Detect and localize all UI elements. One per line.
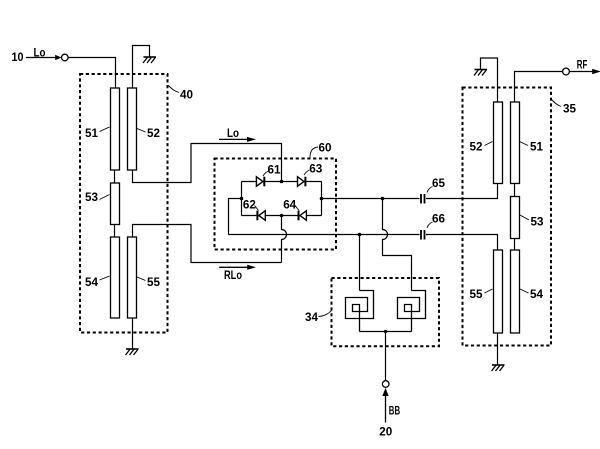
label right 55 [470,287,493,301]
capacitor 65 [421,194,425,204]
transmission line 52 [128,88,137,170]
label right 52 [470,140,493,154]
wire 51-53 link [114,170,116,183]
dashed box 35 [463,88,552,346]
ground (top of right 52) [474,58,498,102]
diode 63 [298,177,306,187]
diode 64 [299,211,307,221]
label 65 [427,176,445,193]
label 61 [263,163,281,177]
wire ring right rail [321,182,323,216]
BB lead arrow [382,388,388,423]
wire drop to right spiral with crossover hop [383,199,412,291]
node ring right [320,197,324,201]
transmission line right 51 [511,102,520,184]
wire ring bottom rail [242,215,322,217]
label right 53 [520,215,544,229]
svg-text:54: 54 [530,287,543,301]
wire RF (51 top to terminal) [515,72,563,103]
svg-text:51: 51 [85,126,98,140]
label 34 [305,310,332,324]
wire drop to left spiral [359,235,361,291]
svg-text:55: 55 [147,275,160,289]
wire ring top rail [242,181,322,183]
svg-text:64: 64 [283,198,296,212]
wire terminal to line 51 [68,58,116,89]
capacitor 66 [421,230,425,240]
svg-text:63: 63 [309,162,322,176]
wire cap65 line (ring right to box 35) [322,198,420,200]
svg-text:61: 61 [268,163,281,177]
svg-text:34: 34 [305,310,318,324]
wire 53-54 link right [514,239,516,251]
label 52 [137,126,160,140]
svg-text:60: 60 [319,141,332,155]
diode 62 [257,211,265,221]
input lead arrow [26,55,62,60]
ground (bottom of right 55) [492,333,505,371]
label 62 [243,198,259,212]
svg-text:53: 53 [85,190,98,204]
terminal BB (open circle) [382,381,389,388]
transmission line right 54 [511,250,520,333]
Lo direction arrow [219,126,256,142]
dashed box 40 [80,74,168,333]
svg-text:52: 52 [470,140,483,154]
label right 51 [520,140,544,154]
wire 53-54 link [114,225,116,238]
ground (top of 52) [133,46,157,89]
svg-text:51: 51 [530,140,543,154]
wire ring bottom drop with crossover hop [282,216,287,263]
transmission line 51 [111,88,120,170]
inductor spiral left [346,291,374,332]
wire spiral bottoms join [360,331,412,333]
svg-text:52: 52 [147,126,160,140]
svg-text:20: 20 [379,425,392,439]
svg-text:35: 35 [563,102,576,116]
label 60 [310,141,332,158]
node BB junction [384,330,387,333]
label 66 [427,212,445,229]
diode ring rails [242,182,322,216]
label right 54 [520,287,543,301]
label 64 [283,198,299,212]
node ring bottom [280,214,284,218]
wire cap66 line (ring left to box 35) [229,234,420,236]
svg-text:RLo: RLo [224,268,242,282]
dashed box 60 [215,159,337,250]
transmission line 53 [111,183,120,225]
label 54 [85,275,110,289]
dashed box 34 [332,278,440,346]
transmission line right 53 [511,197,520,239]
svg-text:RF: RF [577,57,588,71]
wire Lo path (52 bottom to ring top) [133,144,282,183]
label 53 [85,190,110,204]
transmission line 54 [111,237,120,318]
svg-text:55: 55 [470,287,483,301]
label 40 [169,86,194,102]
inductor spiral right [398,291,426,332]
ground (bottom of 55) [126,318,139,355]
svg-text:65: 65 [432,176,445,190]
wire 51-53 link right [514,184,516,197]
wire BB junction down [385,332,387,382]
terminal RF (open circle) [563,68,570,75]
node ring top [280,180,284,184]
terminal 10 (open circle) [62,54,69,61]
node junction cap66 wire [358,233,362,237]
transmission line right 55 [494,250,503,333]
svg-text:40: 40 [180,88,193,102]
node junction cap65 wire [381,197,385,201]
RLo direction arrow [219,265,256,282]
wire RLo path (55 top to ring bottom) [133,225,282,263]
svg-text:53: 53 [531,215,544,229]
node ring left [240,197,244,201]
label 51 [85,126,110,140]
svg-text:BB: BB [389,404,401,418]
svg-text:66: 66 [432,212,445,226]
svg-text:Lo: Lo [227,126,239,140]
svg-text:10: 10 [12,50,24,64]
svg-text:62: 62 [243,198,256,212]
wire ring left stub [229,199,242,235]
transmission line 55 [128,237,137,318]
wire ring left rail [241,182,243,216]
label 55 [137,275,160,289]
label 35 [552,100,577,116]
label 63 [304,162,323,176]
diode 61 [256,177,264,187]
RF lead arrow [569,69,600,74]
transmission line right 52 [494,102,503,184]
svg-text:54: 54 [85,275,98,289]
